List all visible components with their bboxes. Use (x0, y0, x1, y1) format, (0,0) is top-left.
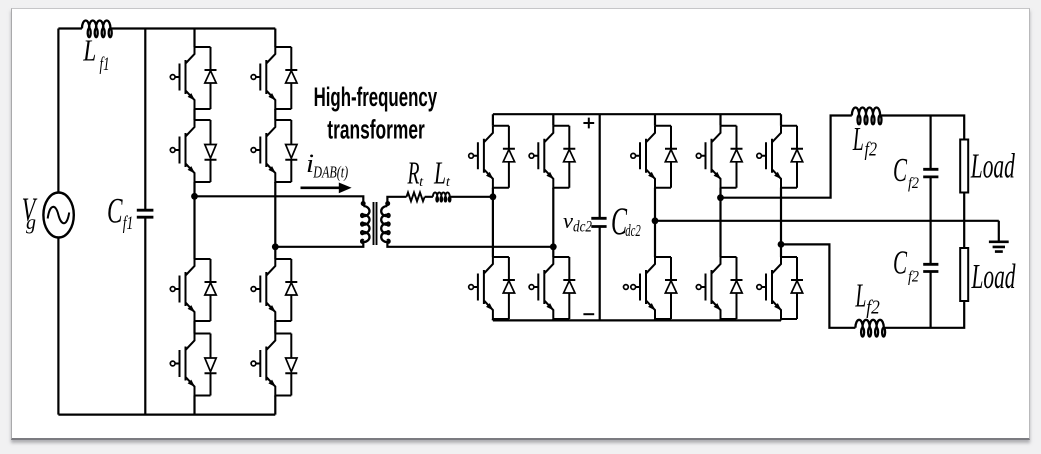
svg-text:f2: f2 (908, 175, 919, 192)
svg-text:t: t (419, 175, 424, 190)
svg-text:transformer: transformer (327, 114, 425, 144)
svg-text:DAB(t): DAB(t) (312, 163, 348, 182)
svg-text:Load: Load (970, 147, 1015, 186)
svg-text:dc2: dc2 (625, 221, 641, 240)
svg-text:f1: f1 (100, 54, 110, 75)
svg-text:C: C (107, 191, 123, 231)
svg-text:t: t (446, 175, 451, 190)
svg-text:f1: f1 (123, 213, 134, 234)
svg-text:L: L (83, 32, 97, 67)
svg-text:Load: Load (971, 257, 1016, 296)
svg-text:L: L (855, 278, 867, 315)
svg-text:High-frequency: High-frequency (314, 82, 438, 112)
svg-text:v: v (563, 208, 573, 233)
svg-text:g: g (26, 212, 36, 234)
svg-text:C: C (893, 152, 907, 189)
svg-text:L: L (852, 121, 864, 158)
svg-text:C: C (893, 245, 907, 282)
svg-text:f2: f2 (866, 297, 880, 319)
svg-text:f2: f2 (908, 269, 919, 286)
svg-text:R: R (407, 155, 420, 191)
svg-text:L: L (433, 155, 446, 191)
svg-text:dc2: dc2 (573, 219, 592, 236)
svg-text:f2: f2 (865, 139, 878, 161)
